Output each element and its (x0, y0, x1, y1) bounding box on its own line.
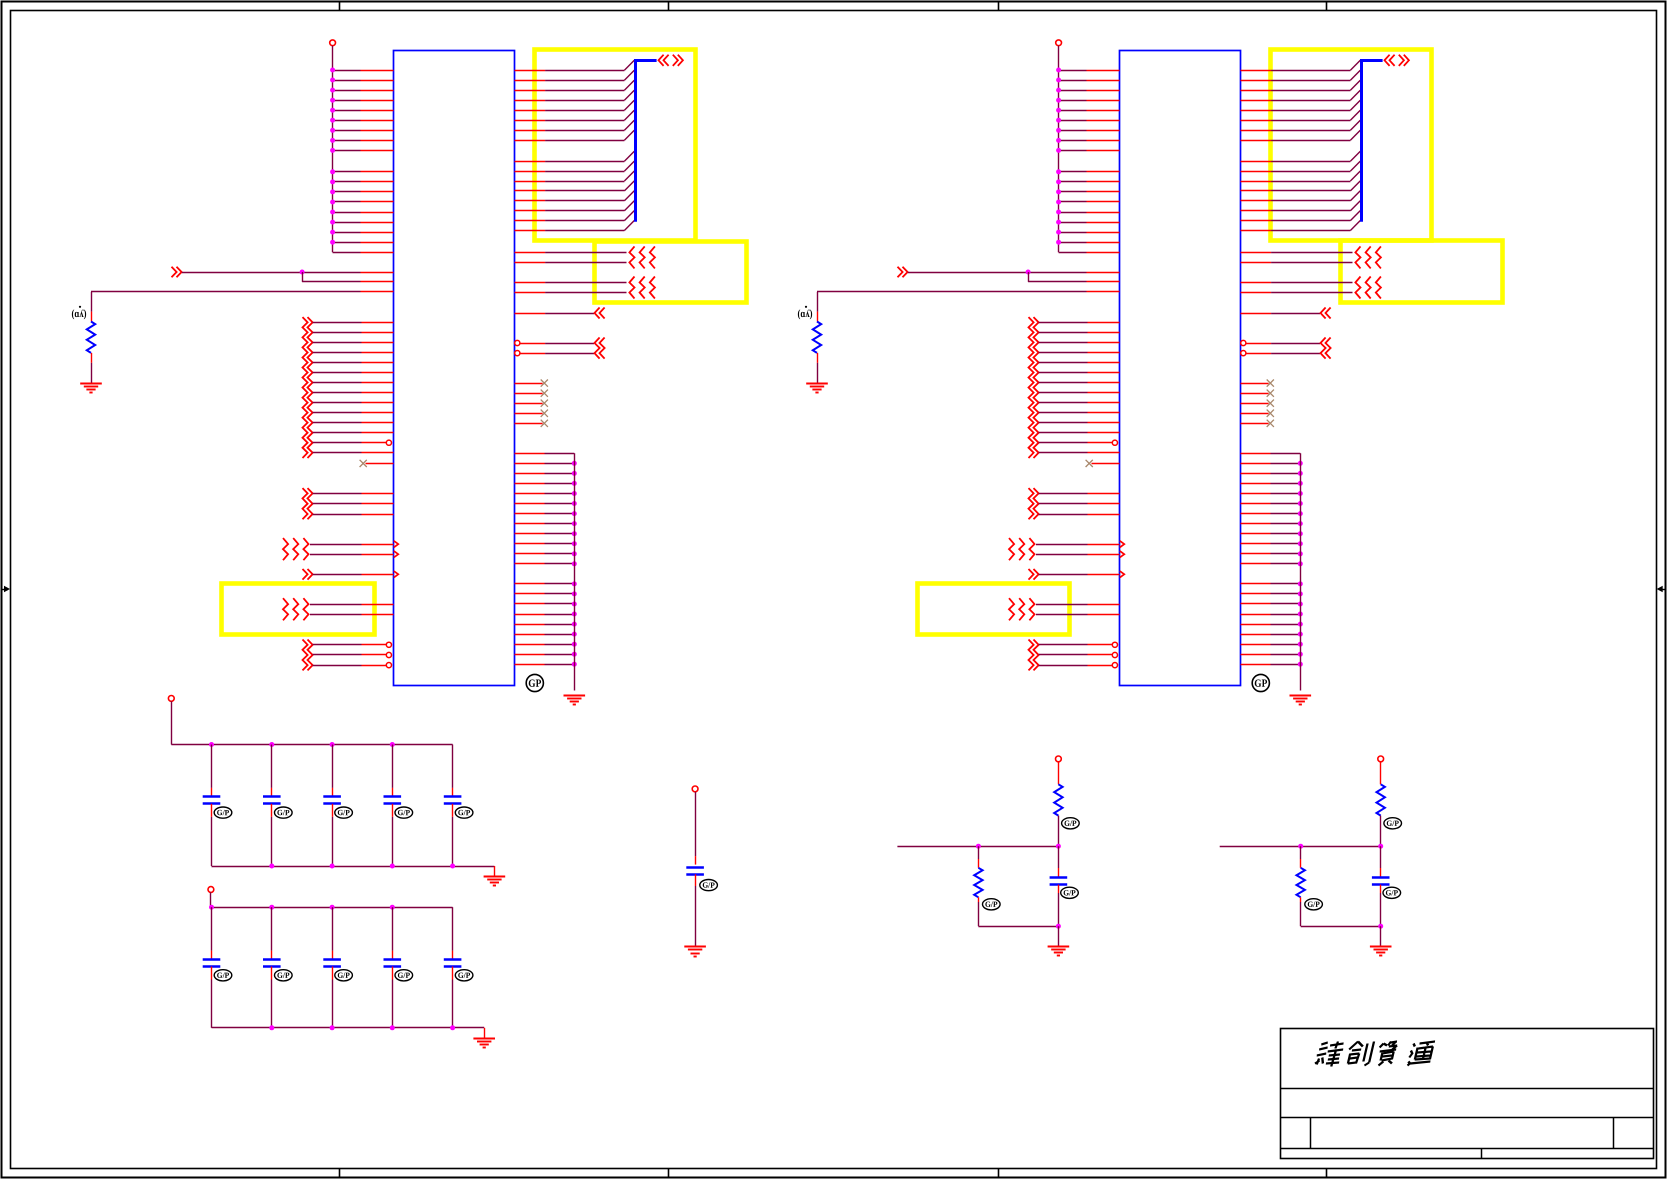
junction bank2 bottom x452 (450, 1025, 455, 1030)
termination resistors x3 U2 right group2 (1355, 277, 1360, 299)
no-connect X U1 right y383 (515, 383, 543, 385)
wire RC1 R1 top lead (1058, 762, 1060, 785)
wire cap lead top bank2 C4 (392, 907, 394, 950)
wire pin left U1 y201 (333, 201, 361, 203)
wire cap lead bottom bank2 C1 (211, 967, 213, 980)
G/P flag bank2 C2 (275, 970, 293, 981)
wire ground bus U2 (1300, 453, 1302, 690)
wire cap lead bottom bank1 C5 (452, 804, 454, 817)
wire bus entry U1 y130 (515, 130, 546, 132)
wire pin inverted U2 y442 (1039, 442, 1088, 444)
wire pin arrow U2 y554 (1036, 554, 1088, 556)
capacitor RC1 C1 (1050, 876, 1068, 879)
termination resistors x3 U2 group6 (1009, 598, 1014, 620)
termination resistors x3 U2 right group1 (1355, 246, 1360, 268)
wire cap lead bottom bank2 C3 (332, 967, 334, 980)
IC U1 body (394, 51, 515, 686)
power terminal circle bank1 (168, 696, 174, 702)
wire bus entry U2 y90 (1241, 90, 1272, 92)
wire bus entry U1 y140 (515, 140, 546, 142)
wire gnd pin U1 y624 (515, 624, 545, 626)
wire gnd pin U2 y503 (1241, 503, 1271, 505)
wire gnd pin U2 y654 (1241, 654, 1271, 656)
off-page connector &lt;&lt; U1 y343-353 (595, 338, 600, 359)
wire U1 net272 (182, 272, 302, 274)
wire pin inverted U2 y654 (1039, 654, 1088, 656)
junction U1 net272 (300, 270, 305, 275)
wire pin left U2 y70 (1059, 70, 1087, 72)
highlight box 1 right (1271, 50, 1432, 241)
wire pin left U1 y181 (333, 181, 361, 183)
wire cap lead bottom bank2 C5 (452, 967, 454, 980)
wire pin U2 y514 (1039, 514, 1088, 516)
wire gnd pin U1 y453 (515, 453, 545, 455)
capacitor bank2 C1 (203, 958, 221, 961)
capacitor bank2 C4 (384, 958, 402, 961)
wire RC2 C1 bottom lead (1380, 885, 1382, 893)
wire bus entry U1 y120 (515, 120, 546, 122)
wire bus entry U1 y70 (515, 70, 546, 72)
G/P flag bank2 C3 (335, 970, 353, 981)
wire bus entry U1 y230 (515, 230, 546, 232)
wire pin U2 y362 (1039, 362, 1088, 364)
wire U1 right y292 (515, 292, 546, 294)
wire bus entry U1 y210 (515, 210, 546, 212)
wire pin inverted U1 y654 (313, 654, 362, 656)
ground single cap (684, 946, 706, 948)
wire pin left U2 y201 (1059, 201, 1087, 203)
wire pin left U1 y120 (333, 120, 361, 122)
off-page connector &lt;&lt; U2 y343-353 (1321, 338, 1326, 359)
no-connect X U2 y463 (1092, 463, 1120, 465)
svg-text:G/P: G/P (458, 808, 471, 817)
power terminal circle RC2 (1378, 756, 1384, 762)
wire bus entry U2 y200 (1241, 200, 1272, 202)
wire pin left U1 y90 (333, 90, 361, 92)
G/P flag bank1 C1 (214, 807, 232, 818)
wire pin U2 y422 (1039, 422, 1088, 424)
ground bank2 (473, 1038, 495, 1040)
wire U1 right y262 (515, 262, 546, 264)
termination chevron chain U1 group3 (303, 488, 308, 519)
wire gnd pin U1 y553 (515, 553, 545, 555)
wire pin U2 y452 (1039, 452, 1088, 454)
wire U2 right y313 (1241, 313, 1272, 315)
wire pin left U1 y242 (333, 242, 361, 244)
svg-text:G/P: G/P (1307, 900, 1320, 909)
wire gnd pin U1 y583 (515, 583, 545, 585)
wire gnd pin U2 y533 (1241, 533, 1271, 535)
wire pin U2 y372 (1039, 372, 1088, 374)
wire pin left U2 y252 (1059, 252, 1087, 254)
GP flag U1 (526, 674, 543, 691)
wire gnd pin U1 y473 (515, 473, 545, 475)
wire gnd pin U2 y624 (1241, 624, 1271, 626)
highlight box 2 left (595, 242, 747, 303)
no-connect X U2 right y403 (1241, 403, 1269, 405)
resistor pulldown U1 (91, 312, 93, 322)
wire gnd pin U2 y583 (1241, 583, 1271, 585)
wire RC1 R2 top lead (978, 846, 980, 859)
wire pin arrow U2 y574 (1039, 574, 1088, 576)
wire pin left U1 y171 (333, 171, 361, 173)
G/P flag RC2 C1 (1383, 887, 1401, 898)
wire feed bank2 (210, 892, 212, 907)
svg-text:GP: GP (1254, 678, 1267, 690)
termination resistors x3 U1 group4 (283, 538, 288, 560)
no-connect X U1 right y413 (515, 413, 543, 415)
wire bus entry U1 y80 (515, 80, 546, 82)
power terminal circle U2 top-left (1056, 40, 1062, 46)
wire bus entry U2 y230 (1241, 230, 1272, 232)
wire RC2 R2 bottom lead (1300, 897, 1302, 902)
wire gnd pin U2 y553 (1241, 553, 1271, 555)
wire gnd pin U2 y453 (1241, 453, 1271, 455)
wire pin left U1 y110 (333, 110, 361, 112)
wire pin U1 y342 (313, 342, 362, 344)
wire pin left U2 y191 (1059, 191, 1087, 193)
wire gnd pin U2 y614 (1241, 614, 1271, 616)
wire gnd pin U2 y593 (1241, 593, 1271, 595)
highlight box 3 left (222, 584, 375, 635)
wire cap lead top bank1 C5 (452, 745, 454, 788)
wire pin U1 y422 (313, 422, 362, 424)
capacitor RC2 C1 (1372, 876, 1390, 879)
wire bus entry U1 y161 (515, 161, 546, 163)
G/P flag bank2 C1 (214, 970, 232, 981)
off-page connector &lt;&lt; U1 y313 (595, 308, 600, 319)
wire pin left U1 y80 (333, 80, 361, 82)
G/P flag RC1 C1 (1061, 887, 1079, 898)
wire RC2 bottom rail (1301, 926, 1381, 928)
power terminal circle bank2 (208, 887, 214, 893)
junction bank2 bottom x332 (330, 1025, 335, 1030)
wire U2 right y252 (1241, 252, 1272, 254)
resistor RC1 R1 (1054, 784, 1062, 815)
wire pin left U2 y120 (1059, 120, 1087, 122)
wire RC1 ground stub (1058, 926, 1060, 946)
ground bank1 (484, 876, 506, 878)
svg-text:G/P: G/P (1063, 888, 1076, 897)
wire top rail bank1 (171, 744, 452, 746)
junction bank2 bottom x271 (269, 1025, 274, 1030)
no-connect X U1 right y423 (515, 423, 543, 425)
wire cap lead top bank1 C3 (332, 745, 334, 788)
wire bus entry U1 y190 (515, 190, 546, 192)
wire gnd pin U2 y634 (1241, 634, 1271, 636)
wire pin left U2 y222 (1059, 222, 1087, 224)
wire feed bank1 (171, 701, 173, 744)
junction bank2 top x211 (209, 905, 214, 910)
junction bank1 top x392 (390, 742, 395, 747)
wire U1 right y282 (515, 282, 546, 284)
off-page connector &lt;&lt; U1 bus (659, 55, 664, 66)
junction RC1 bottom (1056, 924, 1061, 929)
wire pin U1 y514 (313, 514, 362, 516)
junction bank1 top x211 (209, 742, 214, 747)
wire gnd pin U2 y563 (1241, 563, 1271, 565)
svg-text:G/P: G/P (702, 881, 715, 890)
wire pin U1 y352 (313, 352, 362, 354)
junction U2 net272 (1026, 270, 1031, 275)
svg-text:G/P: G/P (277, 971, 290, 980)
GP flag U2 (1252, 674, 1269, 691)
junction RC2 rail R2 (1298, 844, 1303, 849)
wire pin left U2 y80 (1059, 80, 1087, 82)
wire vertical stem U2 left pins (1058, 46, 1060, 253)
junction bank1 top x271 (269, 742, 274, 747)
wire pin arrow U1 y554 (310, 554, 362, 556)
wire bus entry U2 y140 (1241, 140, 1272, 142)
no-connect X U1 right y393 (515, 393, 543, 395)
wire U1 right y252 (515, 252, 546, 254)
wire pin U1 y332 (313, 332, 362, 334)
wire pin U1 y362 (313, 362, 362, 364)
off-page connector &lt;&lt; U2 bus (1385, 55, 1390, 66)
svg-text:(ɑʎ): (ɑʎ) (71, 308, 86, 320)
off-page connector &lt;&lt; U2 y313 (1321, 308, 1326, 319)
wire pin U2 y503 (1039, 503, 1088, 505)
wire pin left U2 y90 (1059, 90, 1087, 92)
no-connect X U2 right y423 (1241, 423, 1269, 425)
junction bank1 bottom x271 (269, 864, 274, 869)
no-connect X U1 y463 (366, 463, 394, 465)
termination chevron chain U1 group7 (303, 640, 308, 671)
junction bank1 top x332 (330, 742, 335, 747)
wire gnd pin U1 y644 (515, 644, 545, 646)
wire cap lead bottom bank2 C4 (392, 967, 394, 980)
wire pin inverted U2 y665 (1039, 665, 1088, 667)
capacitor bank2 C2 (263, 958, 281, 961)
wire RC2 mid rail (1220, 846, 1381, 848)
power terminal circle single cap (692, 786, 698, 792)
no-connect X U1 right y403 (515, 403, 543, 405)
wire RC1 bottom rail (978, 926, 1058, 928)
wire pin left U2 y110 (1059, 110, 1087, 112)
highlight box 3 right (918, 584, 1070, 635)
wire pin U2 y382 (1039, 382, 1088, 384)
junction bank2 top x332 (330, 905, 335, 910)
wire pin U2 y604 (1036, 604, 1088, 606)
no-connect X U2 right y383 (1241, 383, 1269, 385)
wire RC1 R1 bottom lead (1058, 816, 1060, 847)
wire gnd pin U1 y634 (515, 634, 545, 636)
wire RC1 C1 bottom lead (1058, 885, 1060, 893)
wire bottom rail bank1 (212, 866, 495, 868)
capacitor bank2 C3 (323, 958, 341, 961)
wire gnd pin U2 y523 (1241, 523, 1271, 525)
wire pin left U2 y100 (1059, 100, 1087, 102)
G/P flag single cap (700, 880, 718, 891)
junction bank1 bottom x332 (330, 864, 335, 869)
wire gnd pin U1 y463 (515, 463, 545, 465)
wire bus entry U2 y161 (1241, 161, 1272, 163)
no-connect X U2 right y413 (1241, 413, 1269, 415)
off-page connector >> U1 y574 (303, 569, 308, 580)
wire pin U2 y342 (1039, 342, 1088, 344)
wire pin U1 y372 (313, 372, 362, 374)
wire U2 right y282 (1241, 282, 1272, 284)
wire pin U2 y614 (1036, 614, 1088, 616)
capacitor bank1 C4 (384, 795, 402, 798)
wire pin left U2 y171 (1059, 171, 1087, 173)
junction RC1 rail R2 (976, 844, 981, 849)
wire pin U1 y432 (313, 432, 362, 434)
wire gnd pin U1 y523 (515, 523, 545, 525)
wire U1 right y313 (515, 313, 546, 315)
wire pin left U2 y150 (1059, 150, 1087, 152)
wire cap lead top bank1 C2 (271, 745, 273, 788)
wire bus entry U2 y100 (1241, 100, 1272, 102)
capacitor bank1 C1 (203, 795, 221, 798)
wire U2 right y292 (1241, 292, 1272, 294)
off-page connector >> U2 y574 (1029, 569, 1034, 580)
wire pin left U1 y252 (333, 252, 361, 254)
wire pin U2 y402 (1039, 402, 1088, 404)
wire bus entry U2 y220 (1241, 220, 1272, 222)
wire pin U2 y332 (1039, 332, 1088, 334)
wire inverted U2 right y353 (1241, 351, 1246, 356)
highlight box 2 right (1341, 241, 1503, 303)
resistor RC2 R1 (1377, 784, 1385, 815)
highlight box 1 left (535, 50, 696, 241)
wire RC1 C1 top lead (1058, 846, 1060, 868)
termination chevron chain U2 mid-left (1029, 317, 1034, 458)
wire gnd pin U1 y603 (515, 603, 545, 605)
junction RC2 bottom (1378, 924, 1383, 929)
wire pin U1 y452 (313, 452, 362, 454)
svg-text:G/P: G/P (398, 971, 411, 980)
junction bank1 bottom x392 (390, 864, 395, 869)
svg-text:GP: GP (528, 678, 541, 690)
wire bus entry U1 y90 (515, 90, 546, 92)
wire vertical stem U1 left pins (332, 46, 334, 253)
junction bank2 top x271 (269, 905, 274, 910)
wire pin U2 y432 (1039, 432, 1088, 434)
capacitor bank1 C3 (323, 795, 341, 798)
wire cap lead top bank1 C1 (211, 745, 213, 788)
wire inverted U1 right y343 (515, 340, 520, 345)
termination resistors x3 U2 group4 (1009, 538, 1014, 560)
wire pin left U2 y140 (1059, 140, 1087, 142)
wire bus entry U1 y171 (515, 171, 546, 173)
svg-text:(ɑʎ): (ɑʎ) (797, 308, 812, 320)
wire cap lead top bank2 C2 (271, 907, 273, 950)
G/P flag bank1 C5 (455, 807, 473, 818)
G/P flag bank1 C4 (395, 807, 413, 818)
G/P flag RC1 R2 (983, 899, 1001, 910)
wire cap lead top bank1 C4 (392, 745, 394, 788)
wire gnd pin U1 y503 (515, 503, 545, 505)
termination chevron chain U2 group3 (1029, 488, 1034, 519)
wire bus entry U2 y210 (1241, 210, 1272, 212)
wire bus entry U2 y181 (1241, 181, 1272, 183)
G/P flag bank2 C4 (395, 970, 413, 981)
ground RC2 (1370, 946, 1392, 948)
off-page connector >> U2 (898, 267, 903, 278)
wire U2 net272 (908, 272, 1028, 274)
capacitor bank1 C2 (263, 795, 281, 798)
wire cap lead bottom bank2 C2 (271, 967, 273, 980)
wire gnd pin U1 y533 (515, 533, 545, 535)
junction RC2 rail C1 (1378, 844, 1383, 849)
wire pin U1 y493 (313, 493, 362, 495)
wire gnd pin U2 y543 (1241, 543, 1271, 545)
resistor pulldown U2 (817, 312, 819, 322)
wire pin U1 y503 (313, 503, 362, 505)
wire pin left U1 y222 (333, 222, 361, 224)
G/P flag bank1 C3 (335, 807, 353, 818)
wire pin left U2 y130 (1059, 130, 1087, 132)
wire pin left U1 y232 (333, 232, 361, 234)
wire ground stub bank2 (484, 1028, 486, 1038)
G/P flag bank2 C5 (455, 970, 473, 981)
wire pin U1 y322 (313, 322, 362, 324)
wire pin U1 y392 (313, 392, 362, 394)
wire ground bus U1 (574, 453, 576, 690)
junction RC1 rail C1 (1056, 844, 1061, 849)
wire pin left U1 y140 (333, 140, 361, 142)
wire bus entry U2 y171 (1241, 171, 1272, 173)
wire RC2 R1 top lead (1380, 762, 1382, 785)
wire bus entry U2 y190 (1241, 190, 1272, 192)
G/P flag bank1 C2 (275, 807, 293, 818)
wire cap lead bottom bank1 C3 (332, 804, 334, 817)
wire pin inverted U1 y665 (313, 665, 362, 667)
resistor RC2 R2 (1297, 868, 1305, 898)
wire cap lead bottom bank1 C2 (271, 804, 273, 817)
ground U2 pulldown (806, 383, 828, 385)
wire pin U1 y412 (313, 412, 362, 414)
wire RC2 ground stub (1380, 926, 1382, 946)
svg-text:G/P: G/P (398, 808, 411, 817)
svg-text:G/P: G/P (337, 971, 350, 980)
wire bus entry U1 y200 (515, 200, 546, 202)
wire gnd pin U1 y593 (515, 593, 545, 595)
ground U2 pin bus (1290, 695, 1312, 697)
wire gnd pin U2 y493 (1241, 493, 1271, 495)
wire gnd pin U1 y543 (515, 543, 545, 545)
wire inverted U2 right y343 (1241, 340, 1246, 345)
junction bank1 bottom x452 (450, 864, 455, 869)
wire branch U1 net282 (302, 272, 304, 282)
wire pin arrow U2 y544 (1036, 544, 1088, 546)
wire bus entry U1 y100 (515, 100, 546, 102)
wire gnd pin U1 y563 (515, 563, 545, 565)
wire pin U2 y392 (1039, 392, 1088, 394)
capacitor single (686, 866, 704, 869)
termination chevron chain U2 group7 (1029, 640, 1034, 671)
wire pin left U1 y150 (333, 150, 361, 152)
wire pin inverted U1 y442 (313, 442, 362, 444)
wire single cap bottom (695, 874, 697, 886)
wire bus entry U1 y181 (515, 181, 546, 183)
power terminal circle U1 top-left (330, 40, 336, 46)
wire ground stub bank1 (494, 866, 496, 877)
junction bank2 top x392 (390, 905, 395, 910)
capacitor bank1 C5 (444, 795, 462, 798)
capacitor bank2 C5 (444, 958, 462, 961)
resistor RC1 R2 (974, 868, 982, 898)
wire pin left U1 y70 (333, 70, 361, 72)
wire gnd pin U1 y664 (515, 664, 545, 666)
svg-text:G/P: G/P (337, 808, 350, 817)
wire cap lead top bank2 C1 (211, 907, 213, 950)
wire gnd pin U1 y483 (515, 483, 545, 485)
no-connect X U2 right y393 (1241, 393, 1269, 395)
wire gnd pin U1 y493 (515, 493, 545, 495)
wire pin left U1 y191 (333, 191, 361, 193)
